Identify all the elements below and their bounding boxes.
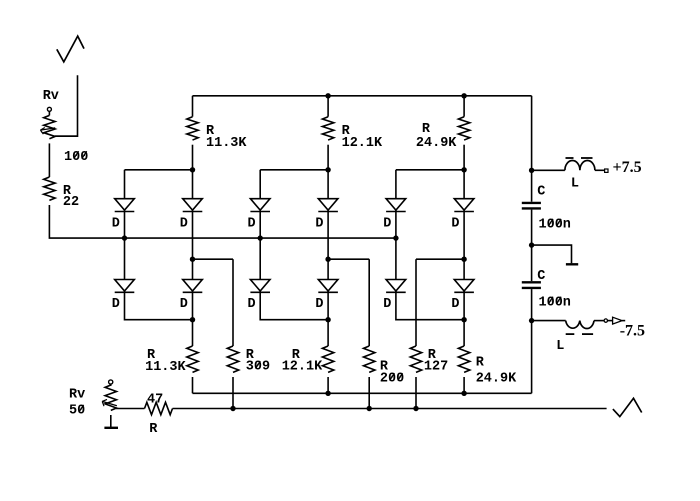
svg-text:127: 127 — [424, 360, 448, 375]
svg-text:22: 22 — [63, 195, 79, 210]
svg-text:D: D — [451, 297, 459, 312]
svg-text:Rv: Rv — [43, 89, 59, 104]
svg-text:D: D — [112, 217, 120, 232]
svg-text:D: D — [248, 297, 256, 312]
svg-text:D: D — [315, 297, 323, 312]
svg-text:L: L — [571, 177, 579, 192]
svg-text:D: D — [451, 217, 459, 232]
svg-text:D: D — [180, 297, 188, 312]
svg-text:D: D — [383, 297, 391, 312]
svg-text:12.1K: 12.1K — [282, 360, 323, 375]
svg-text:100n: 100n — [539, 218, 571, 233]
svg-text:R: R — [476, 356, 485, 371]
svg-text:C: C — [537, 184, 545, 199]
svg-text:24.9K: 24.9K — [476, 372, 517, 387]
svg-text:+7.5: +7.5 — [613, 159, 642, 176]
svg-text:C: C — [537, 269, 545, 284]
svg-text:D: D — [180, 217, 188, 232]
svg-text:Rv: Rv — [69, 387, 85, 402]
svg-text:R: R — [149, 422, 158, 437]
svg-text:100: 100 — [64, 150, 88, 165]
svg-text:200: 200 — [380, 372, 404, 387]
svg-text:100n: 100n — [539, 295, 571, 310]
svg-text:D: D — [112, 297, 120, 312]
svg-text:-7.5: -7.5 — [620, 323, 645, 340]
svg-text:309: 309 — [246, 360, 270, 375]
svg-text:R: R — [422, 122, 431, 137]
svg-text:47: 47 — [147, 392, 163, 407]
svg-text:11.3K: 11.3K — [206, 136, 247, 151]
svg-text:11.3K: 11.3K — [145, 360, 186, 375]
svg-text:D: D — [248, 217, 256, 232]
svg-text:L: L — [556, 339, 564, 354]
svg-text:D: D — [315, 217, 323, 232]
svg-text:24.9K: 24.9K — [416, 136, 457, 151]
svg-text:12.1K: 12.1K — [342, 136, 383, 151]
svg-text:D: D — [383, 217, 391, 232]
